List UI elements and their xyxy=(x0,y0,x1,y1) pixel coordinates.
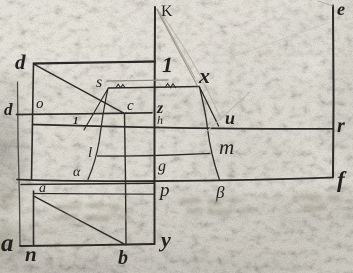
svg-text:n: n xyxy=(25,242,37,266)
wire D5 right curve x to beta xyxy=(200,87,220,180)
wire H1 d-upper horizontal xyxy=(34,62,155,64)
svg-text:c: c xyxy=(127,98,134,114)
wire V3 lower inner vertical n xyxy=(33,191,35,245)
wire D6 diagonal a to b xyxy=(35,197,127,246)
wire D4 x to u xyxy=(200,87,219,126)
wire D2 s to t xyxy=(84,89,108,131)
svg-text:h: h xyxy=(157,113,163,127)
wire H3 s-x horizontal xyxy=(109,87,200,89)
wire zigzag w mark 1 xyxy=(116,84,125,87)
svg-text:m: m xyxy=(219,135,234,159)
svg-text:x: x xyxy=(198,63,210,88)
svg-text:f: f xyxy=(337,167,347,192)
wire zigzag w mark 2 xyxy=(165,84,176,88)
svg-text:e: e xyxy=(337,0,345,19)
svg-text:s: s xyxy=(96,74,102,91)
wire D1 diagonal d to c xyxy=(35,65,125,114)
svg-text:y: y xyxy=(158,227,171,252)
svg-text:d: d xyxy=(4,100,13,119)
svg-text:u: u xyxy=(225,108,235,128)
svg-text:p: p xyxy=(158,180,170,201)
wire D3 left curve s to alpha xyxy=(88,89,108,180)
svg-text:l: l xyxy=(88,145,92,161)
wire H7 long f horizontal xyxy=(17,178,333,182)
svg-text:r: r xyxy=(337,115,345,137)
wire H4 d-o-c horizontal xyxy=(17,113,153,115)
wire H6 l-m horizontal xyxy=(98,154,211,157)
svg-text:o: o xyxy=(36,96,44,112)
svg-text:a: a xyxy=(39,181,46,196)
svg-text:a: a xyxy=(1,230,14,257)
wire H5 long r horizontal xyxy=(33,125,334,129)
svg-text:b: b xyxy=(118,247,128,269)
wire H10 bottom horizontal xyxy=(20,244,155,246)
wire H8 upper lower-box horizontal xyxy=(21,183,154,184)
svg-text:d: d xyxy=(15,50,26,74)
svg-text:K: K xyxy=(161,3,173,20)
svg-text:1: 1 xyxy=(73,115,79,127)
wire V5 K-vertical xyxy=(154,7,157,244)
svg-text:β: β xyxy=(215,183,225,202)
faint H2 line above s-x xyxy=(107,80,168,81)
wire V4 c-vertical down to b xyxy=(125,114,127,244)
svg-text:g: g xyxy=(158,158,166,175)
wire V1 left thin vertical xyxy=(18,82,21,246)
svg-text:α: α xyxy=(73,165,81,180)
faint construction lines from K xyxy=(157,1,334,133)
svg-text:1: 1 xyxy=(162,52,173,77)
blotchy mid-frequency mottle xyxy=(0,75,353,273)
wire H9 a-p horizontal xyxy=(34,193,154,196)
wire V6 right border vertical xyxy=(332,6,335,178)
faint show-through text smudges xyxy=(0,194,341,220)
wire V2 box-left vertical d-corner to f-line xyxy=(32,63,34,179)
